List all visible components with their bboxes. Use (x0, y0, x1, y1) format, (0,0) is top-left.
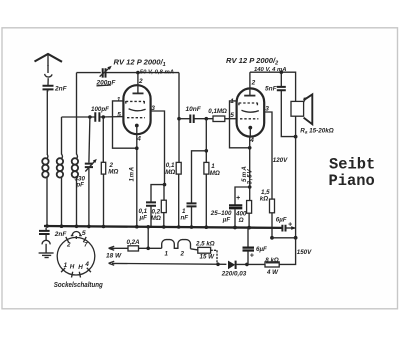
svg-text:nF: nF (181, 214, 189, 221)
svg-text:2: 2 (251, 79, 256, 86)
svg-text:7: 7 (84, 242, 88, 249)
svg-text:pF: pF (75, 182, 84, 189)
svg-text:100pF: 100pF (91, 106, 109, 113)
svg-text:2: 2 (138, 78, 143, 85)
svg-text:5: 5 (82, 230, 86, 237)
svg-text:15 W: 15 W (200, 254, 216, 261)
svg-text:10nF: 10nF (186, 106, 202, 113)
svg-text:RV 12 P 2000/2: RV 12 P 2000/2 (226, 56, 278, 67)
svg-text:+: + (288, 221, 292, 228)
svg-text:1: 1 (165, 250, 169, 257)
svg-text:µF: µF (222, 216, 231, 223)
svg-text:4 W: 4 W (266, 269, 279, 276)
svg-text:5: 5 (117, 111, 121, 118)
svg-text:2: 2 (66, 242, 71, 249)
svg-text:Ω: Ω (238, 217, 244, 224)
svg-text:MΩ: MΩ (210, 170, 220, 177)
svg-text:120V: 120V (273, 157, 288, 164)
svg-text:kΩ: kΩ (260, 195, 268, 202)
svg-text:18 W: 18 W (106, 253, 122, 260)
svg-text:Piano: Piano (329, 172, 375, 190)
svg-text:0,1MΩ: 0,1MΩ (208, 108, 227, 115)
svg-text:3,5V: 3,5V (246, 168, 253, 184)
svg-text:1: 1 (64, 262, 68, 269)
svg-text:140 V, 4 mA: 140 V, 4 mA (254, 67, 287, 73)
svg-text:RV 12 P 2000/1: RV 12 P 2000/1 (114, 58, 166, 69)
svg-text:1: 1 (117, 97, 121, 104)
svg-text:50 V, 0,8 mA: 50 V, 0,8 mA (140, 69, 174, 75)
svg-text:220/0,03: 220/0,03 (221, 271, 247, 278)
svg-text:1mA: 1mA (130, 166, 136, 181)
svg-text:H: H (70, 264, 75, 271)
svg-text:Seibt: Seibt (329, 156, 375, 174)
svg-text:H: H (78, 264, 83, 271)
svg-text:Sockelschaltung: Sockelschaltung (54, 280, 103, 289)
svg-text:5: 5 (230, 112, 234, 119)
svg-text:6µF: 6µF (256, 246, 267, 253)
svg-text:+: + (250, 253, 254, 260)
svg-text:MΩ: MΩ (165, 169, 175, 176)
svg-text:+: + (236, 195, 240, 202)
svg-text:2,5 kΩ: 2,5 kΩ (195, 241, 215, 248)
svg-text:2nF: 2nF (54, 86, 68, 93)
svg-text:0,2A: 0,2A (127, 239, 141, 246)
svg-text:2nF: 2nF (54, 231, 68, 238)
svg-text:4: 4 (84, 261, 89, 268)
svg-text:MΩ: MΩ (108, 169, 118, 176)
svg-text:MΩ: MΩ (151, 215, 161, 222)
svg-text:5nF: 5nF (265, 85, 278, 92)
svg-text:2: 2 (180, 251, 185, 258)
svg-text:6µF: 6µF (276, 216, 287, 223)
svg-text:µF: µF (139, 214, 148, 221)
svg-text:150V: 150V (297, 249, 312, 256)
